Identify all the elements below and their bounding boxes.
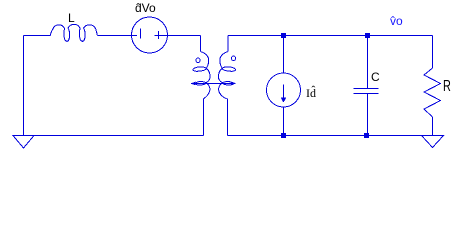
wire current source bottom lead	[283, 107, 285, 136]
wire capacitor top lead	[367, 36, 369, 89]
junction bottom at capacitor	[364, 133, 369, 138]
wire primary top lead	[200, 36, 202, 52]
label d^Vo	[135, 2, 156, 14]
label v^o (blue)	[390, 15, 403, 27]
wire current source top lead	[283, 36, 285, 74]
junction top at capacitor	[365, 33, 370, 38]
junction bottom at current source	[281, 133, 286, 138]
transformer secondary winding	[218, 52, 235, 99]
wire source to transformer	[163, 35, 201, 37]
transformer primary winding	[193, 52, 210, 99]
wire inductor to source	[97, 35, 137, 37]
ground (right)	[422, 136, 444, 148]
wire bottom-left rail	[24, 135, 204, 137]
transformer primary dot	[196, 58, 200, 62]
voltage source d^Vo	[132, 17, 168, 53]
wire secondary top lead	[227, 36, 229, 52]
junction top at current source	[281, 33, 286, 38]
DC transformer arrow	[192, 83, 235, 85]
label Id^	[306, 87, 316, 99]
wire top-right rail	[228, 35, 433, 37]
transformer secondary dot	[231, 56, 235, 60]
wire capacitor bottom lead	[367, 94, 369, 136]
label R	[443, 79, 451, 95]
inductor L	[50, 24, 97, 41]
wire left vertical	[23, 36, 25, 137]
wire top-left horizontal rail	[24, 35, 51, 37]
wire right vertical bottom	[432, 117, 434, 136]
label L	[68, 12, 75, 24]
ground (left)	[13, 136, 34, 149]
resistor R	[424, 68, 441, 117]
current source Id	[267, 73, 301, 107]
wire primary bottom lead	[203, 99, 205, 136]
wire right vertical top	[432, 36, 434, 69]
capacitor C plates	[354, 89, 379, 94]
label C	[371, 71, 380, 83]
wire bottom-right rail	[228, 135, 433, 137]
wire secondary bottom lead	[227, 99, 229, 136]
